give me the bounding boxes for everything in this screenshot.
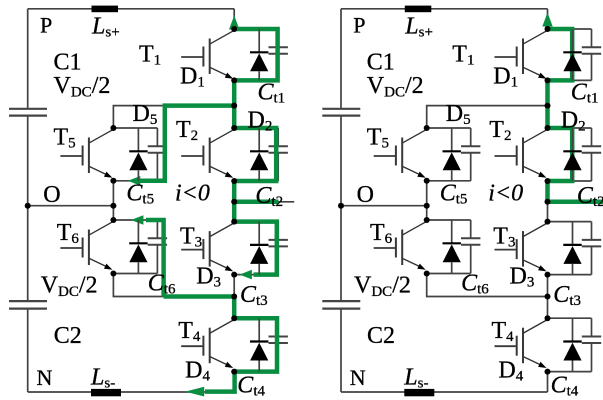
wire output stub (left diagram) bbox=[234, 201, 294, 203]
svg-text:T5: T5 bbox=[54, 125, 76, 152]
svg-text:Ct4: Ct4 bbox=[551, 373, 579, 400]
svg-text:D4: D4 bbox=[185, 358, 210, 385]
svg-text:T6: T6 bbox=[57, 220, 80, 247]
node T6 clamp tap (right diagram) bbox=[545, 294, 551, 300]
diode D6 antiparallel of T6 (right diagram) bbox=[443, 220, 461, 274]
node D5 clamp tap (left diagram) bbox=[231, 103, 237, 109]
green current path leg D1-D2 (right diagram) bbox=[545, 80, 550, 128]
wire O to clamp (left diagram) bbox=[28, 205, 114, 207]
node T6 clamp tap (left diagram) bbox=[231, 294, 237, 300]
green current path through D2 (right diagram) bbox=[548, 128, 573, 181]
node T2 emitter (left diagram) bbox=[231, 178, 237, 184]
capacitor Ct4 snubber of T4 (left diagram) bbox=[269, 318, 288, 371]
wire bottom N rail (left diagram) bbox=[28, 391, 235, 393]
node T5 emitter (left diagram) bbox=[110, 178, 116, 184]
green current path to Ct5 (left diagram) bbox=[140, 106, 234, 181]
wire T4 cell rails (right diagram) bbox=[548, 318, 592, 371]
green current path out to load (right diagram) bbox=[548, 200, 603, 205]
transistor T6 IGBT (right diagram) bbox=[374, 222, 426, 270]
capacitor Ct3 snubber of T3 (right diagram) bbox=[582, 222, 601, 275]
node T6 emitter (left diagram) bbox=[110, 271, 116, 277]
transistor T1 IGBT (left diagram) bbox=[181, 31, 233, 79]
svg-text:C1: C1 bbox=[367, 50, 395, 76]
transistor T4 IGBT (right diagram) bbox=[495, 320, 547, 368]
svg-text:Ls-: Ls- bbox=[90, 365, 115, 392]
svg-text:C2: C2 bbox=[367, 323, 395, 349]
capacitor C2 (left diagram) bbox=[9, 301, 47, 309]
wire O to clamp (right diagram) bbox=[341, 205, 427, 207]
wire leg T2-T3 segment (right diagram) bbox=[547, 181, 549, 222]
wire T6 cell rails (left diagram) bbox=[113, 220, 157, 274]
svg-text:D2: D2 bbox=[561, 108, 586, 135]
wire leg bottom segment (right diagram) bbox=[547, 372, 549, 392]
green arrow along N rail (left diagram) bbox=[185, 387, 204, 397]
diode D2 antiparallel of T2 (left diagram) bbox=[250, 128, 268, 181]
transistor T3 IGBT (right diagram) bbox=[495, 223, 547, 271]
wire T5 cell rails (right diagram) bbox=[427, 128, 471, 181]
node T5 collector (left diagram) bbox=[110, 125, 116, 131]
node T6 collector (left diagram) bbox=[110, 217, 116, 223]
wire D5 clamp top (left diagram) bbox=[113, 106, 234, 128]
capacitor Ct2 snubber of T2 (right diagram) bbox=[582, 128, 601, 181]
capacitor C1 (right diagram) bbox=[322, 109, 360, 116]
diode D3 antiparallel of T3 (right diagram) bbox=[563, 222, 581, 275]
wire T4 cell rails (left diagram) bbox=[234, 318, 278, 371]
diode D3 antiparallel of T3 (left diagram) bbox=[250, 222, 268, 275]
wire T5 cell rails (left diagram) bbox=[113, 128, 157, 181]
svg-text:T3: T3 bbox=[180, 224, 202, 251]
inductor Ls- (right diagram) bbox=[404, 389, 434, 396]
wire top P rail (right diagram) bbox=[341, 8, 548, 10]
green current path through Ct1 (left diagram) bbox=[234, 29, 277, 80]
wire leg T1-T2 segment (left diagram) bbox=[233, 80, 235, 128]
green current path T6 link (left diagram) bbox=[164, 294, 235, 299]
svg-text:VDC/2: VDC/2 bbox=[54, 73, 111, 101]
wire leg T3-T4 segment (left diagram) bbox=[233, 275, 235, 319]
transistor T2 IGBT (right diagram) bbox=[495, 130, 547, 178]
svg-text:Ct6: Ct6 bbox=[148, 271, 176, 298]
node T5 emitter (right diagram) bbox=[424, 178, 430, 184]
svg-text:Ls+: Ls+ bbox=[404, 14, 433, 41]
svg-text:VDC/2: VDC/2 bbox=[41, 273, 98, 301]
wire T2 cell rails (right diagram) bbox=[548, 128, 592, 181]
diode D6 antiparallel of T6 (left diagram) bbox=[129, 220, 147, 274]
transistor T3 IGBT (left diagram) bbox=[181, 223, 233, 271]
node T2 collector (left diagram) bbox=[231, 125, 237, 131]
diode D4 antiparallel of T4 (right diagram) bbox=[563, 318, 581, 371]
wire top P rail (left diagram) bbox=[28, 8, 235, 10]
wire T1 cell rails (left diagram) bbox=[234, 29, 278, 80]
wire leg top segment (right diagram) bbox=[547, 9, 549, 29]
svg-text:Ct3: Ct3 bbox=[553, 282, 581, 309]
transistor T6 IGBT (left diagram) bbox=[60, 222, 112, 270]
svg-text:Ct1: Ct1 bbox=[258, 80, 286, 107]
wire left DC rail middle (left diagram) bbox=[27, 116, 29, 300]
green current path through D1 (right diagram) bbox=[548, 29, 573, 80]
green current path through Ct3 (left diagram) bbox=[234, 222, 277, 275]
svg-text:D3: D3 bbox=[196, 264, 221, 291]
node T1 emitter (left diagram) bbox=[231, 77, 237, 83]
node T5 collector (right diagram) bbox=[424, 125, 430, 131]
wire T1 cell rails (right diagram) bbox=[548, 29, 592, 80]
svg-text:O: O bbox=[357, 182, 374, 208]
node P-leg top junction (left diagram) bbox=[231, 26, 237, 32]
node clamp midpoint (right diagram) bbox=[424, 203, 430, 209]
node D5 clamp tap (right diagram) bbox=[545, 103, 551, 109]
capacitor Ct4 snubber of T4 (right diagram) bbox=[582, 318, 601, 371]
svg-text:Ct1: Ct1 bbox=[571, 80, 599, 107]
node T2 collector (right diagram) bbox=[545, 125, 551, 131]
transistor T2 IGBT (left diagram) bbox=[181, 130, 233, 178]
svg-text:Ct2: Ct2 bbox=[255, 183, 283, 210]
svg-text:T2: T2 bbox=[176, 117, 198, 144]
node output (left diagram) bbox=[231, 199, 237, 205]
svg-text:T1: T1 bbox=[452, 42, 474, 69]
wire leg bottom segment (left diagram) bbox=[233, 372, 235, 392]
wire T2 cell rails (left diagram) bbox=[234, 128, 278, 181]
green current path through Ct4 (left diagram) bbox=[205, 297, 277, 392]
node T3 collector (left diagram) bbox=[231, 219, 237, 225]
svg-text:O: O bbox=[43, 182, 60, 208]
node T1 emitter (right diagram) bbox=[545, 77, 551, 83]
wire clamp T5-T6 segment (left diagram) bbox=[112, 181, 114, 220]
svg-text:N: N bbox=[37, 365, 53, 390]
green current path stem (right diagram) bbox=[545, 25, 550, 29]
transistor T1 IGBT (right diagram) bbox=[495, 31, 547, 79]
wire left DC rail upper (left diagram) bbox=[27, 9, 29, 108]
svg-text:T5: T5 bbox=[367, 125, 389, 152]
wire left DC rail lower (right diagram) bbox=[340, 309, 342, 392]
green current path arrow up (right diagram) bbox=[542, 13, 552, 27]
diode D4 antiparallel of T4 (left diagram) bbox=[250, 318, 268, 371]
node O on rail (right diagram) bbox=[338, 203, 344, 209]
svg-text:D2: D2 bbox=[248, 108, 273, 135]
node clamp midpoint (left diagram) bbox=[110, 203, 116, 209]
wire leg T3-T4 segment (right diagram) bbox=[547, 275, 549, 319]
svg-text:T4: T4 bbox=[492, 318, 515, 345]
node T6 emitter (right diagram) bbox=[424, 271, 430, 277]
svg-text:VDC/2: VDC/2 bbox=[354, 273, 411, 301]
inductor Ls+ (right diagram) bbox=[405, 6, 432, 13]
svg-text:T3: T3 bbox=[493, 224, 515, 251]
svg-text:C2: C2 bbox=[54, 323, 82, 349]
green arrow into T6 collector node (left diagram) bbox=[131, 215, 144, 225]
capacitor C2 (right diagram) bbox=[322, 301, 360, 309]
green current path through Ct2 (left diagram) bbox=[234, 128, 276, 181]
green arrow into T5 emitter node (left diagram) bbox=[128, 176, 141, 186]
svg-text:Ls-: Ls- bbox=[403, 365, 428, 392]
wire T6 clamp bottom (right diagram) bbox=[427, 274, 548, 297]
transistor T5 IGBT (right diagram) bbox=[374, 130, 426, 178]
svg-text:T1: T1 bbox=[139, 42, 161, 69]
green current path arrow up (left diagram) bbox=[229, 16, 239, 30]
transistor T5 IGBT (left diagram) bbox=[60, 130, 112, 178]
diode D2 antiparallel of T2 (right diagram) bbox=[563, 128, 581, 181]
green current path through Ct6 (left diagram) bbox=[146, 220, 164, 297]
capacitor Ct1 snubber of T1 (right diagram) bbox=[582, 29, 601, 80]
wire clamp T5-T6 segment (right diagram) bbox=[426, 181, 428, 220]
capacitor Ct6 snubber of T6 (right diagram) bbox=[461, 220, 480, 274]
svg-text:Ct5: Ct5 bbox=[126, 181, 154, 208]
svg-text:Ct5: Ct5 bbox=[440, 181, 468, 208]
svg-text:P: P bbox=[353, 13, 365, 38]
svg-text:Ct3: Ct3 bbox=[240, 282, 268, 309]
wire left DC rail middle (right diagram) bbox=[340, 116, 342, 300]
svg-text:i<0: i<0 bbox=[488, 181, 523, 207]
capacitor Ct5 snubber of T5 (left diagram) bbox=[148, 128, 167, 181]
node P-leg top junction (right diagram) bbox=[545, 26, 551, 32]
node output (right diagram) bbox=[545, 199, 551, 205]
node T4 emitter (right diagram) bbox=[545, 369, 551, 375]
capacitor Ct6 snubber of T6 (left diagram) bbox=[148, 220, 167, 274]
capacitor Ct3 snubber of T3 (left diagram) bbox=[269, 222, 288, 275]
svg-text:D1: D1 bbox=[493, 64, 518, 91]
capacitor Ct1 snubber of T1 (left diagram) bbox=[269, 29, 288, 80]
green current path leg D1-D2 (left diagram) bbox=[232, 80, 237, 128]
capacitor Ct5 snubber of T5 (right diagram) bbox=[461, 128, 480, 181]
inductor Ls- (left diagram) bbox=[91, 389, 121, 396]
node O on rail (left diagram) bbox=[25, 203, 31, 209]
svg-text:Ct6: Ct6 bbox=[461, 271, 489, 298]
wire leg T2-T3 segment (left diagram) bbox=[233, 181, 235, 222]
svg-text:i<0: i<0 bbox=[175, 181, 210, 207]
svg-text:T2: T2 bbox=[489, 117, 511, 144]
svg-text:C1: C1 bbox=[54, 50, 82, 76]
wire left DC rail lower (left diagram) bbox=[27, 309, 29, 392]
svg-text:T6: T6 bbox=[370, 220, 393, 247]
svg-text:Ls+: Ls+ bbox=[91, 14, 120, 41]
transistor T4 IGBT (left diagram) bbox=[181, 320, 233, 368]
wire T6 cell rails (right diagram) bbox=[427, 220, 471, 274]
diode D5 antiparallel of T5 (left diagram) bbox=[129, 128, 147, 181]
svg-text:D4: D4 bbox=[498, 358, 523, 385]
svg-text:N: N bbox=[350, 365, 366, 390]
wire leg T1-T2 segment (right diagram) bbox=[547, 80, 549, 128]
svg-text:P: P bbox=[40, 13, 52, 38]
wire T3 cell rails (left diagram) bbox=[234, 222, 278, 275]
green current path leg to output (left diagram) bbox=[232, 181, 237, 222]
svg-text:D1: D1 bbox=[180, 64, 205, 91]
green current path output stub (left diagram) bbox=[234, 200, 278, 205]
node T6 collector (right diagram) bbox=[424, 217, 430, 223]
wire left DC rail upper (right diagram) bbox=[340, 9, 342, 108]
node T4 collector (left diagram) bbox=[231, 315, 237, 321]
wire leg top segment (left diagram) bbox=[233, 9, 235, 29]
svg-text:Ct4: Ct4 bbox=[237, 373, 265, 400]
green current path leg to output (right diagram) bbox=[545, 181, 550, 202]
diode D5 antiparallel of T5 (right diagram) bbox=[443, 128, 461, 181]
node T3 emitter (right diagram) bbox=[545, 272, 551, 278]
diode D1 antiparallel of T1 (left diagram) bbox=[250, 29, 268, 80]
wire bottom N rail (right diagram) bbox=[341, 391, 548, 393]
capacitor C1 (left diagram) bbox=[9, 109, 47, 116]
svg-text:VDC/2: VDC/2 bbox=[367, 73, 424, 101]
svg-text:D3: D3 bbox=[510, 264, 535, 291]
wire T6 clamp bottom (left diagram) bbox=[113, 274, 234, 297]
svg-text:Ct2: Ct2 bbox=[577, 183, 603, 210]
svg-text:T4: T4 bbox=[178, 318, 201, 345]
node T4 collector (right diagram) bbox=[545, 315, 551, 321]
node T3 collector (right diagram) bbox=[545, 219, 551, 225]
wire output stub (right diagram) bbox=[548, 201, 603, 203]
inductor Ls+ (left diagram) bbox=[92, 6, 119, 13]
green arrow into T3 emitter node (left diagram) bbox=[239, 270, 252, 280]
node T2 emitter (right diagram) bbox=[545, 178, 551, 184]
wire T3 cell rails (right diagram) bbox=[548, 222, 592, 275]
node T4 emitter (left diagram) bbox=[231, 369, 237, 375]
diode D1 antiparallel of T1 (right diagram) bbox=[563, 29, 581, 80]
node T3 emitter (left diagram) bbox=[231, 272, 237, 278]
capacitor Ct2 snubber of T2 (left diagram) bbox=[269, 128, 288, 181]
wire D5 clamp top (right diagram) bbox=[427, 106, 548, 128]
